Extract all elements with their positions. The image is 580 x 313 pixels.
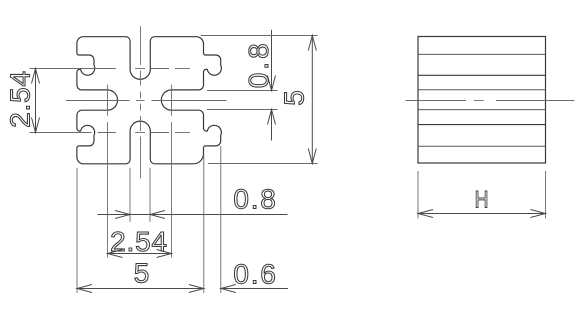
svg-text:0.8: 0.8 bbox=[243, 40, 274, 88]
extension line bottom slot right wall bbox=[149, 168, 151, 222]
extension line right view left edge bbox=[417, 171, 419, 219]
svg-text:2.54: 2.54 bbox=[5, 70, 36, 128]
left slot end vertical centerline bbox=[107, 85, 109, 116]
svg-text:5: 5 bbox=[279, 90, 310, 106]
dimension 5 vertical bbox=[311, 36, 313, 164]
svg-text:H: H bbox=[475, 186, 489, 214]
fin edge line y=124.6 bbox=[418, 124, 546, 126]
dimension 2.54 horizontal bbox=[108, 253, 172, 255]
dimension H bbox=[418, 213, 546, 215]
extension line left slot-end center bbox=[107, 122, 109, 258]
svg-text:0.8: 0.8 bbox=[233, 184, 277, 215]
horizontal centerline of right view bbox=[406, 100, 466, 102]
fin edge line y=54.4 bbox=[418, 53, 546, 55]
extension line pin outer edge bbox=[220, 146, 222, 293]
extension line slot lower wall bbox=[207, 109, 278, 111]
fin edge line y=89.8 bbox=[418, 89, 546, 91]
dimension 0.8 vertical bbox=[271, 30, 273, 91]
extension line right slot-end center bbox=[171, 122, 173, 258]
dimension 0.6 horizontal bbox=[221, 288, 288, 290]
vertical centerline of left view bbox=[140, 26, 142, 65]
extension line slot upper wall bbox=[207, 90, 278, 92]
dimension 5 horizontal bbox=[77, 288, 204, 290]
svg-text:5: 5 bbox=[134, 258, 150, 289]
extension line left face bbox=[76, 168, 78, 293]
extension line bottom face bbox=[208, 163, 318, 165]
dimension 0.8 horizontal bbox=[98, 214, 288, 216]
right view: side elevation of extrusion bbox=[418, 37, 546, 164]
extension line right face bbox=[203, 154, 205, 293]
extension line right view right edge bbox=[545, 171, 547, 219]
extension line bottom slot left wall bbox=[129, 168, 131, 222]
dimension 2.54 vertical bbox=[35, 69, 37, 133]
fin edge line y=146.3 bbox=[418, 145, 546, 147]
fin edge line y=109.6 bbox=[418, 109, 546, 111]
horizontal centerline of left view bbox=[66, 100, 130, 102]
svg-text:0.6: 0.6 bbox=[233, 258, 277, 289]
centerline through lower hump / bottom slot end center, y=132.5 bbox=[30, 132, 92, 134]
extension line top face bbox=[201, 35, 318, 37]
right slot end vertical centerline bbox=[171, 85, 173, 116]
centerline through upper hump / top slot end center, y=68.5 bbox=[30, 68, 117, 70]
svg-text:2.54: 2.54 bbox=[110, 226, 168, 257]
fin edge line y=75.3 bbox=[418, 74, 546, 76]
left view: heatsink extrusion cross-section profile bbox=[77, 37, 222, 164]
